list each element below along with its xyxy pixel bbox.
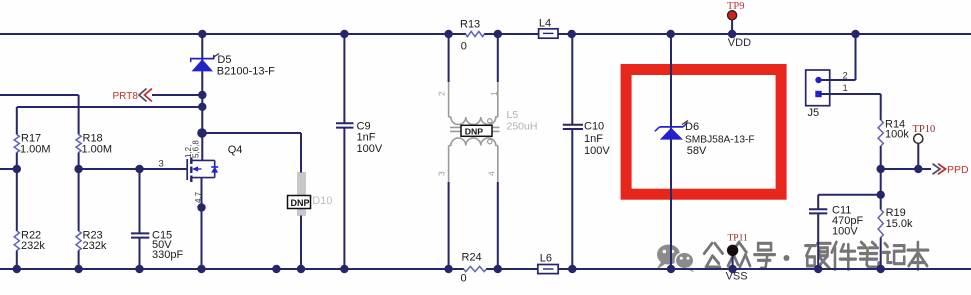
svg-text:330pF: 330pF [152, 249, 183, 261]
svg-text:TP10: TP10 [913, 124, 936, 135]
svg-text:DNP: DNP [465, 126, 484, 136]
svg-text:0: 0 [461, 41, 467, 53]
svg-text:232k: 232k [83, 240, 107, 252]
svg-text:R13: R13 [460, 18, 480, 30]
svg-text:1nF: 1nF [584, 133, 603, 145]
svg-text:1.00M: 1.00M [20, 143, 51, 155]
svg-text:TP9: TP9 [727, 1, 745, 12]
svg-text:PPD: PPD [947, 164, 969, 176]
svg-text:100V: 100V [357, 143, 383, 155]
svg-text:4,7: 4,7 [194, 191, 203, 203]
svg-text:58V: 58V [687, 145, 707, 157]
svg-text:1.00M: 1.00M [82, 143, 113, 155]
svg-text:L4: L4 [539, 17, 551, 29]
svg-text:C10: C10 [584, 121, 604, 133]
svg-text:DNP: DNP [291, 198, 310, 208]
svg-text:15.0k: 15.0k [886, 218, 913, 230]
svg-text:Q4: Q4 [228, 144, 243, 156]
svg-text:100V: 100V [832, 226, 858, 238]
svg-text:VDD: VDD [728, 37, 751, 49]
svg-text:1: 1 [843, 83, 848, 94]
svg-text:D6: D6 [685, 121, 699, 133]
svg-text:4: 4 [487, 171, 497, 176]
svg-text:5,6,8: 5,6,8 [191, 140, 200, 158]
svg-text:3: 3 [437, 171, 447, 176]
svg-text:2: 2 [843, 71, 848, 82]
svg-text:0: 0 [461, 272, 467, 284]
svg-text:232k: 232k [21, 240, 45, 252]
svg-text:SMBJ58A-13-F: SMBJ58A-13-F [685, 134, 755, 145]
svg-text:100V: 100V [584, 145, 610, 157]
svg-text:2: 2 [437, 91, 447, 96]
svg-text:B2100-13-F: B2100-13-F [217, 66, 275, 78]
svg-text:L5: L5 [507, 109, 519, 121]
svg-text:1nF: 1nF [357, 132, 376, 144]
svg-text:L6: L6 [540, 253, 552, 265]
svg-text:R24: R24 [462, 251, 482, 263]
svg-text:1: 1 [489, 91, 499, 96]
svg-text:100k: 100k [885, 129, 909, 141]
svg-text:D5: D5 [217, 54, 231, 66]
svg-text:3: 3 [159, 159, 164, 170]
svg-text:PRT8: PRT8 [113, 91, 139, 102]
svg-text:VSS: VSS [726, 271, 748, 283]
svg-text:J5: J5 [808, 107, 820, 119]
svg-text:250uH: 250uH [507, 121, 538, 133]
svg-text:C9: C9 [357, 120, 371, 132]
svg-text:TP11: TP11 [728, 234, 748, 244]
